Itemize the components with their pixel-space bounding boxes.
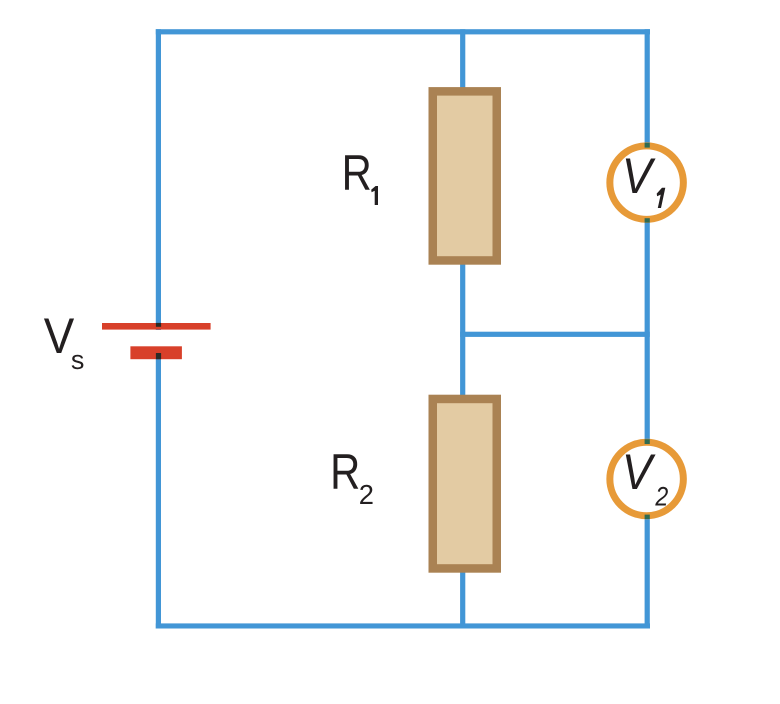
voltmeter V2 circle [610, 442, 684, 516]
wire middle horizontal (node between R1 and R2) [460, 332, 650, 337]
wire left rail lower [156, 350, 161, 629]
battery wire overlap mark bottom [156, 353, 161, 359]
voltmeter V2 wire overlap mark top [645, 439, 650, 444]
label V2 (meter) [622, 445, 668, 512]
svg-text:s: s [71, 345, 85, 375]
svg-text:2: 2 [654, 482, 668, 512]
voltmeter V1 circle [610, 146, 684, 220]
svg-text:V: V [622, 445, 656, 501]
voltmeter V1 wire overlap mark bottom [645, 218, 650, 222]
wire middle vertical (resistor chain) [460, 29, 465, 628]
voltmeter V1 wire overlap mark top [645, 143, 650, 148]
wire left rail upper [156, 29, 161, 330]
svg-text:R: R [342, 144, 372, 201]
wire right rail [645, 29, 650, 628]
svg-text:2: 2 [359, 479, 374, 510]
wire top rail [156, 29, 650, 34]
label V1 (meter) [622, 149, 665, 208]
svg-text:V: V [44, 308, 75, 364]
label R1 [342, 144, 378, 205]
battery Vs top plate [102, 323, 211, 330]
battery wire overlap mark top [156, 323, 161, 327]
resistor R2 body [433, 399, 497, 569]
battery Vs bottom plate [130, 346, 182, 359]
label R2 [330, 443, 374, 510]
svg-text:R: R [330, 443, 360, 500]
svg-text:V: V [622, 149, 656, 205]
wire bottom rail [156, 623, 650, 628]
label Vs [44, 308, 85, 375]
voltmeter V2 wire overlap mark bottom [645, 515, 650, 519]
resistor R1 body [433, 91, 497, 260]
